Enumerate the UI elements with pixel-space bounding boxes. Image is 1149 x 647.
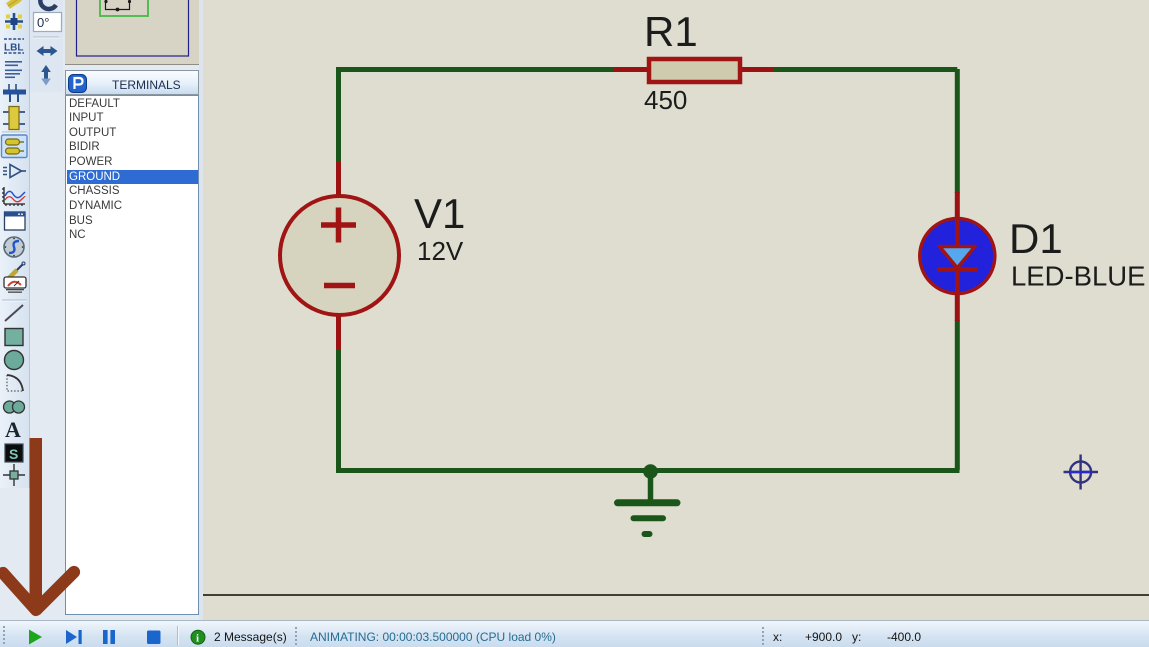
icon junction dot xyxy=(5,13,23,30)
svg-text:-400.0: -400.0 xyxy=(887,630,921,644)
icon popup window xyxy=(5,212,26,230)
pause button xyxy=(103,630,108,644)
wire left vertical xyxy=(336,69,341,163)
svg-text:450: 450 xyxy=(644,85,687,115)
column separator xyxy=(33,36,59,38)
svg-text:LED-BLUE: LED-BLUE xyxy=(1011,261,1146,292)
icon analogue graph xyxy=(2,187,25,206)
terminals panel header xyxy=(65,70,199,95)
overview mini circuit xyxy=(106,0,130,10)
grip 2 xyxy=(295,627,297,645)
P logo xyxy=(68,74,87,93)
icon 2D circle xyxy=(5,351,24,370)
mirror horizontal icon xyxy=(37,46,58,56)
LED D1 pin bottom xyxy=(955,292,960,321)
svg-text:y:: y: xyxy=(852,630,861,644)
ground bar 3 xyxy=(645,531,650,537)
V1 minus sign xyxy=(324,283,355,289)
grip 3 xyxy=(762,627,764,645)
icon 2D arc xyxy=(7,375,23,391)
LED D1 triangle xyxy=(940,247,976,269)
angle box 0 deg xyxy=(34,13,62,32)
icon text script xyxy=(5,61,22,78)
icon 2D symbol S xyxy=(5,444,23,462)
icon wire label LBL xyxy=(4,39,24,54)
info message icon xyxy=(191,630,205,644)
icon wire piece (partial top) xyxy=(8,0,20,6)
icon 2D box xyxy=(5,329,23,346)
battery V1 body xyxy=(280,196,399,315)
resistor R1 lead right xyxy=(740,67,773,72)
icon bus xyxy=(3,84,26,102)
icon terminals (selected) xyxy=(2,135,28,158)
icon device pin xyxy=(3,165,26,178)
header title xyxy=(112,78,181,92)
LED D1 cathode bar xyxy=(938,267,978,272)
icon 2D line xyxy=(5,305,23,321)
wire right vertical xyxy=(955,69,960,470)
LED D1 pin top xyxy=(955,192,960,220)
rotate icon (partial) xyxy=(40,0,56,9)
separator xyxy=(177,626,179,645)
svg-text:D1: D1 xyxy=(1009,215,1063,262)
list items xyxy=(67,97,198,243)
schematic canvas background xyxy=(203,0,1149,620)
resistor R1 lead left xyxy=(614,67,650,72)
LED D1 anode line xyxy=(955,220,960,247)
icon generator xyxy=(4,237,24,257)
selected item GROUND xyxy=(67,170,198,185)
svg-text:12V: 12V xyxy=(417,236,464,266)
wire bottom xyxy=(336,468,960,473)
junction dot xyxy=(643,464,658,479)
crosshair cursor xyxy=(1064,455,1099,490)
svg-text:i: i xyxy=(196,633,199,645)
status bar xyxy=(0,620,1149,647)
icon component xyxy=(3,107,25,130)
ground terminal stem xyxy=(648,471,654,500)
icon current probe xyxy=(4,277,26,293)
svg-text:+900.0: +900.0 xyxy=(805,630,842,644)
svg-text:x:: x: xyxy=(773,630,782,644)
big cursor arrow xyxy=(0,430,100,630)
second toolbar column background xyxy=(30,0,63,92)
V1 plus sign xyxy=(321,208,356,243)
svg-text:LBL: LBL xyxy=(4,43,23,54)
wire top xyxy=(339,67,958,70)
ground bar 1 xyxy=(618,499,678,506)
resistor R1 xyxy=(649,59,740,82)
play button xyxy=(29,630,42,645)
left grip xyxy=(3,626,5,644)
ground bar 2 xyxy=(634,515,664,521)
svg-text:R1: R1 xyxy=(644,8,698,55)
overview green view box xyxy=(100,0,148,16)
battery V1 pin bottom xyxy=(336,316,341,349)
LED D1 body xyxy=(920,219,995,294)
svg-text:0°: 0° xyxy=(37,15,49,30)
icon voltage probe xyxy=(6,262,25,281)
step button xyxy=(66,630,77,644)
battery V1 pin top xyxy=(336,162,341,196)
terminals list box xyxy=(65,95,199,615)
toolbar icons svg xyxy=(0,0,64,620)
LED D1 cathode line xyxy=(955,271,960,293)
mirror vertical icon xyxy=(41,65,51,86)
overview window xyxy=(65,0,200,65)
sheet border line xyxy=(203,594,1149,596)
schematic SVG layer xyxy=(203,0,1149,620)
toolbar separator xyxy=(2,131,27,133)
toolbar separator 2 xyxy=(2,299,27,301)
svg-text:ANIMATING: 00:00:03.500000 (CP: ANIMATING: 00:00:03.500000 (CPU load 0%) xyxy=(310,630,556,644)
left toolbar strip background xyxy=(0,0,30,488)
arrow stem xyxy=(30,438,43,601)
svg-text:V1: V1 xyxy=(414,190,465,237)
arrow chevron xyxy=(3,572,74,610)
stop button xyxy=(147,631,161,645)
icon 2D closed path xyxy=(4,401,25,413)
wire left lower vertical xyxy=(336,347,341,470)
crosshair inner blue line xyxy=(1070,471,1091,473)
svg-text:2 Message(s): 2 Message(s) xyxy=(214,630,287,644)
icon 2D marker xyxy=(3,464,25,486)
splitter strip xyxy=(199,0,203,620)
overview sheet border xyxy=(77,0,189,56)
